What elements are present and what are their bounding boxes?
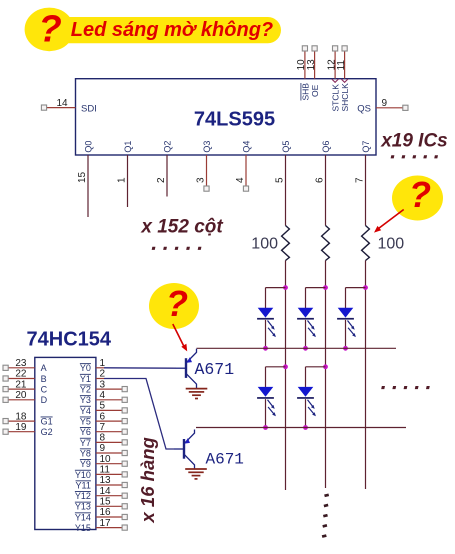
- pin 15 Q0 label: [77, 141, 93, 183]
- pin 14 Y12: [75, 486, 127, 501]
- svg-text:QS: QS: [357, 104, 371, 115]
- svg-text:SHCLK: SHCLK: [340, 83, 350, 112]
- svg-text:Y8: Y8: [80, 448, 91, 458]
- pin 9 Y8: [80, 443, 127, 458]
- svg-text:19: 19: [15, 422, 27, 433]
- wire from D4 row2 cathode to row: [265, 399, 267, 427]
- pin 3 Y2: [80, 379, 127, 394]
- wire column below resistor R3: [365, 261, 367, 490]
- junction node on column at D1 row1: [283, 285, 288, 290]
- pin 17 Y15: [75, 518, 127, 533]
- svg-text:STCLK: STCLK: [331, 84, 341, 112]
- pin 10 Y9: [80, 454, 127, 469]
- ellipsis dots right of rows: [381, 386, 430, 389]
- svg-text:Q2: Q2: [163, 141, 173, 153]
- value label 100 right: [378, 236, 405, 253]
- pin 2 Y1: [80, 369, 106, 384]
- svg-text:Y11: Y11: [76, 480, 91, 490]
- annotation callout: yellow bubble top: [25, 8, 281, 52]
- svg-text:6: 6: [315, 177, 326, 183]
- wire stub below Q4: [243, 155, 248, 191]
- svg-text:Q7: Q7: [361, 141, 371, 153]
- pin 7 Q7 label: [355, 141, 371, 183]
- pin 1 Y0: [80, 358, 106, 373]
- junction node on column at D4 row2: [283, 364, 288, 369]
- wire branch to D4 row2: [266, 367, 286, 387]
- svg-text:22: 22: [15, 369, 27, 380]
- wire from D1 row1 cathode to row: [265, 320, 267, 348]
- svg-text:x19 ICs: x19 ICs: [380, 131, 448, 152]
- svg-text:Y4: Y4: [80, 406, 91, 416]
- svg-text:Y10: Y10: [75, 470, 91, 480]
- junction node on column at D2 row1: [323, 285, 328, 290]
- wire column from Q7 to resistor R3: [365, 155, 367, 226]
- svg-text:2: 2: [156, 177, 167, 183]
- svg-text:3: 3: [196, 177, 207, 183]
- svg-text:Q6: Q6: [321, 141, 331, 153]
- annotation text: x19 ICs: [380, 131, 448, 152]
- wire net Y0 to Q1 base: [96, 367, 176, 369]
- clock input chevron: [332, 79, 339, 82]
- LED D5 row2: [297, 387, 316, 416]
- svg-text:20: 20: [15, 390, 27, 401]
- pin 5 Y4: [80, 401, 127, 416]
- LED D1 row1: [257, 308, 276, 337]
- svg-text:15: 15: [77, 171, 88, 183]
- svg-text:x 152 cột: x 152 cột: [140, 217, 223, 238]
- svg-text:1: 1: [117, 177, 128, 183]
- svg-text:Y9: Y9: [80, 459, 91, 469]
- wire from D2 row1 cathode to row: [305, 320, 307, 348]
- svg-text:Y1: Y1: [80, 374, 91, 384]
- annotation text: Led sang mo khong?: [71, 19, 273, 41]
- pin 10 SHB top wire and terminal: [296, 46, 310, 101]
- junction node on column at D5 row2: [323, 364, 328, 369]
- label A671 for Q1: [195, 360, 235, 379]
- svg-text:100: 100: [251, 236, 278, 253]
- pin 20 D wire and terminal: [3, 390, 48, 405]
- svg-text:74HC154: 74HC154: [27, 328, 112, 350]
- svg-text:?: ?: [166, 283, 188, 324]
- wire row 1: [197, 347, 397, 349]
- wire stub below Q3: [204, 155, 209, 191]
- svg-text:13: 13: [306, 59, 317, 71]
- pin 16 Y14: [75, 507, 127, 522]
- wire from D5 row2 cathode to row: [305, 399, 307, 427]
- pin 21 C wire and terminal: [3, 379, 48, 394]
- LED D2 row1: [297, 308, 316, 337]
- svg-text:Y14: Y14: [75, 512, 91, 522]
- IC U1 74LS595 body: [76, 79, 377, 155]
- svg-text:A: A: [41, 363, 47, 373]
- annotation text: x 152 cot: [140, 217, 223, 238]
- pin 7 Y6: [80, 422, 127, 437]
- pin 4 Q4 label: [235, 141, 251, 183]
- svg-text:Y13: Y13: [75, 502, 91, 512]
- junction node D4 row2 cathode on row: [263, 425, 268, 430]
- pin 11 SHCLK top wire and terminal: [336, 46, 350, 112]
- wire stub below Q0: [87, 155, 89, 217]
- svg-text:SHB: SHB: [301, 83, 311, 101]
- LED D4 row2: [257, 387, 276, 416]
- pin 12 STCLK top wire and terminal: [326, 46, 340, 112]
- svg-text:D: D: [41, 395, 48, 405]
- pin 13 Y11: [76, 475, 128, 490]
- resistor R3: [362, 226, 370, 261]
- pin 19 G2 wire and terminal: [3, 422, 53, 437]
- pin 5 Q5 label: [275, 141, 291, 183]
- svg-text:9: 9: [382, 98, 388, 109]
- LED D3 row1: [337, 308, 356, 337]
- svg-text:18: 18: [15, 411, 27, 422]
- svg-text:Led sáng mờ không?: Led sáng mờ không?: [71, 19, 273, 41]
- ground for Q2: [185, 469, 207, 479]
- wire row 2: [196, 427, 406, 429]
- svg-text:Q5: Q5: [281, 141, 291, 153]
- wire from D3 row1 cathode to row: [345, 320, 347, 348]
- svg-text:4: 4: [235, 177, 246, 183]
- transistor Q2 A671: [174, 430, 195, 469]
- pin 14 SDI wire and terminal: [41, 98, 96, 115]
- svg-text:G2: G2: [41, 427, 53, 437]
- resistor R2: [322, 226, 330, 261]
- pin 15 Y13: [75, 497, 127, 512]
- svg-text:Q3: Q3: [202, 141, 212, 153]
- svg-text:14: 14: [57, 98, 69, 109]
- svg-text:Y5: Y5: [80, 417, 91, 427]
- pin 6 Q6 label: [315, 141, 331, 183]
- pin 9 QS wire and terminal: [357, 98, 408, 115]
- annotation question mark 1: [39, 9, 62, 51]
- wire column below resistor R1: [285, 261, 287, 491]
- svg-text:Y15: Y15: [75, 523, 91, 533]
- wire branch to D5 row2: [306, 367, 326, 387]
- junction node D1 row1 cathode on row: [263, 346, 268, 351]
- value label 100 left: [251, 236, 278, 253]
- wire net Y1 to Q2 base: [96, 379, 174, 450]
- svg-text:Q0: Q0: [84, 141, 94, 153]
- svg-text:B: B: [41, 374, 47, 384]
- svg-text:OE: OE: [310, 84, 320, 97]
- pin 6 Y5: [80, 411, 127, 426]
- wire branch to D1 row1: [266, 288, 286, 308]
- svg-text:C: C: [41, 385, 48, 395]
- svg-text:11: 11: [336, 60, 347, 71]
- annotation question mark 3: [166, 283, 188, 324]
- svg-text:x 16 hàng: x 16 hàng: [137, 437, 158, 523]
- wire column from Q5 to resistor R1: [285, 155, 287, 226]
- pin 13 OE top wire and terminal: [306, 46, 320, 97]
- annotation callout: yellow circle at transistor: [149, 283, 199, 329]
- resistor R1: [282, 226, 290, 261]
- clock input chevron: [341, 79, 348, 82]
- annotation callout: yellow circle at resistor: [392, 176, 443, 221]
- junction node D2 row1 cathode on row: [303, 346, 308, 351]
- wire branch to D3 row1: [346, 288, 366, 308]
- pin 22 B wire and terminal: [3, 369, 47, 384]
- pin 3 Q3 label: [196, 141, 212, 183]
- label 74HC154 title: [27, 328, 112, 350]
- svg-text:Y3: Y3: [80, 395, 91, 405]
- junction node D5 row2 cathode on row: [303, 425, 308, 430]
- pin 23 A wire and terminal: [3, 358, 47, 373]
- dashed wire continuation below column 2: [322, 493, 329, 537]
- pin 18 G1 wire and terminal: [3, 411, 53, 426]
- svg-text:?: ?: [409, 174, 431, 215]
- pin 1 Q1 label: [117, 141, 133, 183]
- svg-text:21: 21: [15, 379, 27, 390]
- annotation arrow to transistor Q1: [173, 324, 187, 351]
- svg-text:A671: A671: [206, 450, 244, 468]
- wire column from Q6 to resistor R2: [325, 155, 327, 226]
- svg-text:Y0: Y0: [80, 363, 91, 373]
- svg-text:SDI: SDI: [81, 103, 97, 114]
- wire stub below Q2: [166, 155, 168, 197]
- svg-text:G1: G1: [41, 417, 53, 427]
- ellipsis dots under x 152 cot: [152, 247, 202, 250]
- junction node D3 row1 cathode on row: [343, 346, 348, 351]
- svg-text:74LS595: 74LS595: [194, 108, 275, 130]
- svg-text:Y12: Y12: [75, 491, 91, 501]
- svg-text:A671: A671: [195, 360, 235, 379]
- wire stub below Q1: [127, 155, 129, 207]
- wire branch to D2 row1: [306, 288, 326, 308]
- pin 4 Y3: [80, 390, 127, 405]
- svg-text:5: 5: [275, 177, 286, 183]
- transistor Q1 A671: [176, 349, 197, 388]
- svg-text:23: 23: [15, 358, 27, 369]
- svg-text:Y6: Y6: [80, 427, 91, 437]
- svg-text:?: ?: [39, 9, 62, 51]
- pin 8 Y7: [80, 433, 127, 448]
- svg-text:100: 100: [378, 236, 405, 253]
- pin 11 Y10: [75, 465, 127, 480]
- svg-text:Y7: Y7: [80, 438, 91, 448]
- label A671 for Q2: [206, 450, 244, 468]
- annotation text: x 16 hang (rotated): [137, 437, 158, 523]
- ground for Q1: [186, 389, 208, 399]
- svg-text:7: 7: [355, 177, 366, 183]
- junction node on column at D3 row1: [363, 285, 368, 290]
- svg-text:Q4: Q4: [242, 141, 252, 153]
- annotation arrow to resistor R3: [374, 210, 404, 233]
- ellipsis dots under x19 ICs: [391, 155, 438, 158]
- IC U2 74HC154 body: [35, 357, 96, 529]
- svg-text:Y2: Y2: [80, 385, 91, 395]
- wire column below resistor R2: [325, 261, 327, 489]
- svg-text:Q1: Q1: [123, 141, 133, 153]
- annotation question mark 2: [409, 174, 431, 215]
- pin 2 Q2 label: [156, 141, 172, 183]
